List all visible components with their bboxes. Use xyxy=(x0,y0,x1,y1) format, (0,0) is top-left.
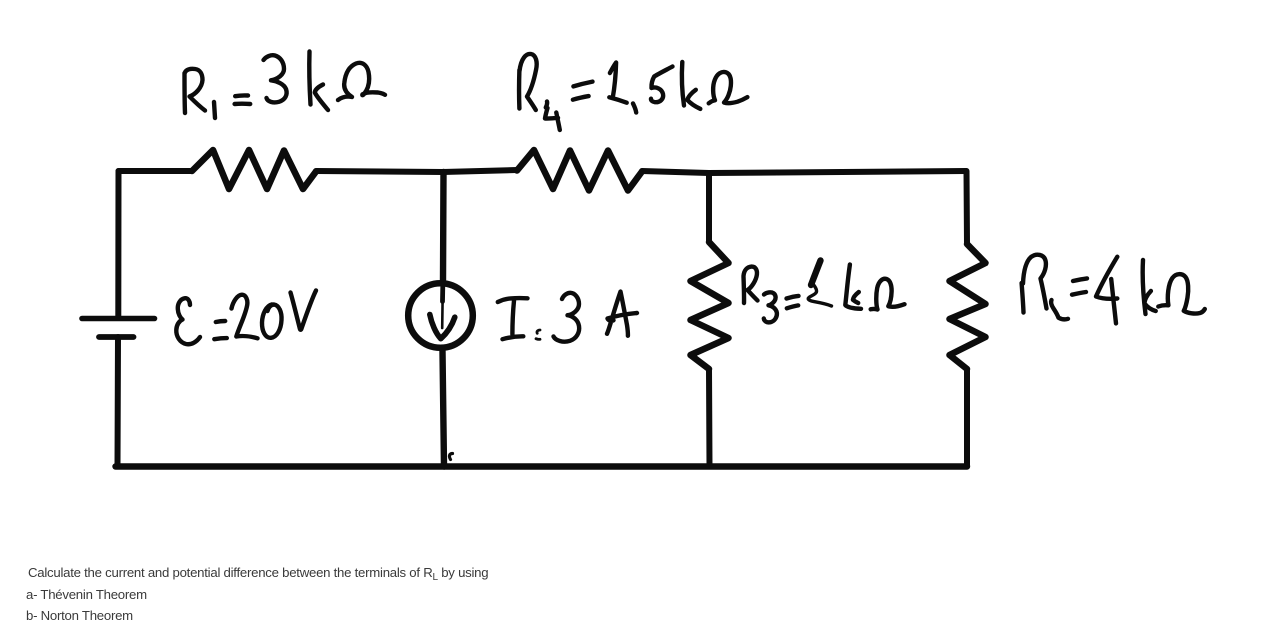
wire R3 branch lower xyxy=(706,369,713,467)
wire left vertical lower xyxy=(115,337,122,467)
label E: equals xyxy=(214,321,227,339)
label RL: digit 4 xyxy=(1096,257,1117,324)
resistor R4 xyxy=(517,150,642,191)
resistor R1 xyxy=(192,150,316,189)
label R3: subscript 3 xyxy=(764,292,777,322)
wire current-source branch upper xyxy=(440,172,447,281)
caption line 2 xyxy=(26,587,147,602)
current source arrow shaft thin xyxy=(441,300,444,328)
wire top-right xyxy=(709,171,966,173)
label R4: letter k xyxy=(682,62,700,109)
label R1: letter k xyxy=(309,52,328,111)
wire R3 branch upper xyxy=(706,173,712,242)
current source arrowhead xyxy=(430,315,455,339)
label R1: digit 3 xyxy=(264,55,287,102)
label R4: equals xyxy=(573,82,593,100)
label E: epsilon xyxy=(176,298,200,344)
wire top between R4 and node B xyxy=(642,171,709,173)
label R3: digit 1 xyxy=(811,261,821,286)
tiny stray mark on bottom wire xyxy=(449,454,452,460)
label R1: subscript 1 xyxy=(214,102,215,118)
wire top between R1 and node A xyxy=(316,171,443,172)
label R3: equals xyxy=(787,296,799,308)
label I: tiny mark xyxy=(536,330,540,339)
wire current-source branch lower xyxy=(443,351,445,467)
label R1: omega xyxy=(338,63,385,100)
label I: letter A xyxy=(607,292,637,336)
label R4: letter R xyxy=(519,54,537,110)
label RL: omega xyxy=(1158,274,1205,313)
current source arrow shaft xyxy=(440,285,445,302)
resistor R3 xyxy=(691,242,729,369)
label I: letter I xyxy=(498,298,528,339)
wire bottom xyxy=(116,463,968,469)
label R3: omega xyxy=(871,279,905,310)
label E: digit 0 xyxy=(262,304,282,337)
current source I circle xyxy=(408,283,473,348)
label I: digit 3 xyxy=(554,293,580,342)
label R4: digit 1 xyxy=(609,63,626,103)
label RL: letter R xyxy=(1022,255,1047,313)
label RL: letter k xyxy=(1143,260,1156,314)
label R1: letter R xyxy=(185,69,206,113)
wire top-left horizontal xyxy=(119,171,193,174)
label R4: omega xyxy=(709,72,748,103)
label R4: digit 5 xyxy=(651,67,673,103)
label R4: comma xyxy=(633,104,636,113)
resistor RL xyxy=(950,244,986,369)
label RL: subscript L xyxy=(1051,300,1068,319)
label R1: equals xyxy=(235,95,251,104)
label RL: equals xyxy=(1072,278,1087,294)
wire right vertical upper xyxy=(964,171,971,244)
label E: letter V xyxy=(291,291,317,330)
battery E long plate xyxy=(82,316,155,322)
caption line 3 xyxy=(26,608,133,623)
label R4: subscript 4 xyxy=(545,102,560,131)
label R3: letter R xyxy=(744,267,758,303)
label E: digit 2 xyxy=(232,295,258,339)
caption line 1 xyxy=(28,565,488,583)
battery E short plate xyxy=(99,334,134,340)
wire right vertical lower xyxy=(964,369,970,467)
label R3: letter k xyxy=(845,265,861,309)
wire left vertical upper xyxy=(115,171,121,318)
node A junction xyxy=(443,170,517,172)
